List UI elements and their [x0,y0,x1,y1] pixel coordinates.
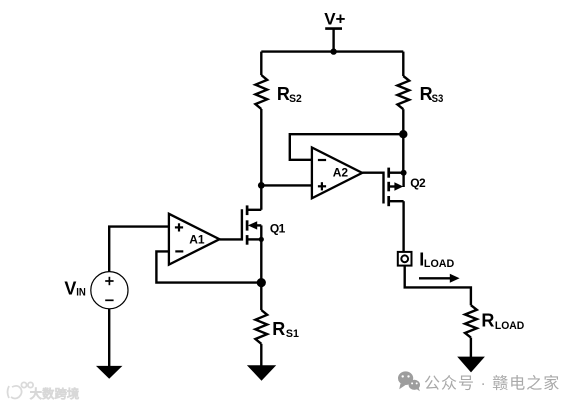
svg-text:大数跨境: 大数跨境 [30,386,80,401]
svg-text:A2: A2 [333,166,349,180]
svg-text:S1: S1 [286,328,299,340]
svg-text:公众号 · 赣电之家: 公众号 · 赣电之家 [424,375,560,393]
svg-text:Q1: Q1 [270,222,286,236]
svg-text:IN: IN [76,287,86,299]
svg-text:A1: A1 [189,233,205,247]
svg-text:R: R [272,319,285,339]
svg-text:R: R [277,84,290,104]
svg-text:Q2: Q2 [410,176,426,190]
svg-text:R: R [481,311,494,331]
svg-text:V+: V+ [324,9,345,28]
svg-text:S3: S3 [432,93,444,105]
svg-text:V: V [64,279,76,299]
svg-text:S2: S2 [289,93,302,105]
svg-text:LOAD: LOAD [495,320,524,332]
svg-text:LOAD: LOAD [424,258,454,270]
